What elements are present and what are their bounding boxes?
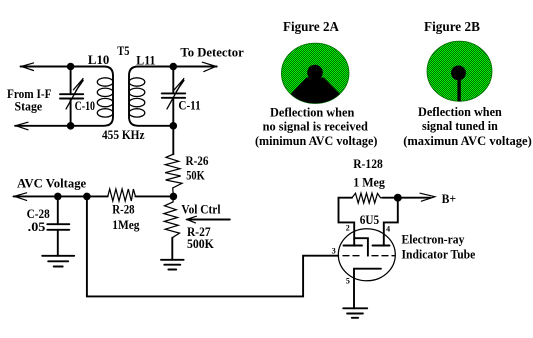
svg-text:6U5: 6U5: [360, 212, 380, 227]
B+ arrow: [420, 193, 435, 201]
wire junction to tube pin3: [87, 196, 338, 296]
svg-text:signal tuned in: signal tuned in: [422, 118, 499, 133]
wire C11 to R26: [172, 126, 174, 154]
capacitor C28 plates: [47, 223, 69, 225]
junction C10 top: [67, 63, 75, 71]
svg-text:1 Meg: 1 Meg: [353, 174, 385, 189]
target plate right: [373, 245, 390, 247]
capacitor C11 arrow: [167, 79, 184, 109]
svg-text:Figure 2A: Figure 2A: [283, 20, 340, 35]
svg-text:C-10: C-10: [75, 98, 95, 113]
svg-text:To Detector: To Detector: [180, 45, 244, 60]
R128 left wire + pin2 path: [339, 198, 355, 246]
svg-text:4: 4: [386, 224, 390, 233]
junction R26 R27: [170, 193, 178, 201]
tube envelope 6U5: [338, 229, 395, 281]
resistor R128: [352, 193, 382, 203]
capacitor C28 wires: [57, 196, 59, 224]
ground below C28: [42, 255, 74, 257]
capacitor C10 wires: [70, 67, 72, 95]
wire top-left to L10 top: [15, 67, 113, 126]
arrow from I-F top: [21, 63, 33, 71]
figure 2A green circle: [282, 43, 349, 103]
svg-text:L10: L10: [88, 52, 109, 67]
svg-text:5: 5: [346, 277, 350, 286]
svg-text:500K: 500K: [187, 236, 215, 251]
target plate left: [344, 245, 363, 247]
svg-text:2: 2: [346, 224, 350, 233]
grid dashed line: [343, 255, 359, 257]
ground below R27: [161, 259, 184, 261]
junction C10 bottom: [67, 122, 75, 130]
svg-text:(minimun AVC voltage): (minimun AVC voltage): [255, 133, 377, 148]
AVC wire: [14, 195, 108, 197]
svg-text:50K: 50K: [186, 167, 205, 182]
svg-text:455 KHz: 455 KHz: [102, 127, 145, 142]
svg-text:R-26: R-26: [186, 153, 209, 168]
capacitor C11 plates: [162, 92, 185, 94]
svg-text:R-28: R-28: [112, 201, 135, 216]
svg-text:C-11: C-11: [178, 98, 200, 113]
junction C11 top: [170, 63, 178, 71]
ray-control electrode step: [354, 238, 368, 256]
figure 2A shadow pattern: [283, 65, 348, 110]
capacitor C10 arrow: [66, 79, 83, 109]
svg-text:1Meg: 1Meg: [112, 217, 140, 232]
resistor R28: [108, 189, 136, 201]
resistor R26: [165, 154, 182, 196]
svg-text:Electron-ray: Electron-ray: [402, 232, 465, 247]
ground below tube: [343, 307, 367, 309]
svg-text:Indicator Tube: Indicator Tube: [402, 247, 476, 262]
capacitor C11 wires: [172, 67, 174, 94]
svg-text:Deflection when: Deflection when: [270, 104, 355, 119]
svg-text:3: 3: [332, 246, 336, 255]
wire R28 to junction: [135, 195, 173, 197]
svg-text:Vol Ctrl: Vol Ctrl: [181, 201, 220, 216]
junction AVC to tube: [83, 193, 91, 201]
svg-text:Stage: Stage: [15, 98, 43, 113]
svg-text:L11: L11: [136, 53, 155, 68]
junction C28: [54, 193, 62, 201]
svg-text:Deflection when: Deflection when: [418, 104, 503, 119]
junction R128 B+: [394, 194, 402, 202]
junction C11 bottom: [170, 122, 178, 130]
wire L11 top to detector: [129, 67, 217, 126]
cathode: [354, 269, 381, 309]
figure 2B green circle: [427, 41, 492, 101]
arrow from I-F bottom: [16, 122, 28, 130]
svg-text:no signal is received: no signal is received: [263, 119, 369, 134]
R128 right wire to B+: [382, 197, 430, 199]
figure 2B shadow pattern: [451, 66, 466, 103]
svg-text:.05: .05: [28, 219, 46, 234]
svg-text:T5: T5: [117, 43, 130, 58]
inductor L11 loops: [129, 78, 145, 86]
inductor L10 loops: [97, 78, 113, 86]
arrow to detector: [202, 62, 216, 71]
svg-text:R-128: R-128: [353, 156, 383, 171]
AVC arrow: [14, 193, 26, 201]
svg-text:AVC Voltage: AVC Voltage: [17, 176, 86, 191]
svg-text:Figure 2B: Figure 2B: [424, 20, 480, 35]
svg-text:B+: B+: [442, 191, 457, 206]
svg-text:(maximun AVC voltage): (maximun AVC voltage): [403, 133, 532, 148]
pot wiper arrow: [187, 219, 230, 221]
capacitor C10 plates: [60, 93, 83, 95]
pin4 wire: [384, 198, 398, 246]
potentiometer R27: [164, 196, 180, 237]
wire R27 to ground: [171, 238, 173, 260]
